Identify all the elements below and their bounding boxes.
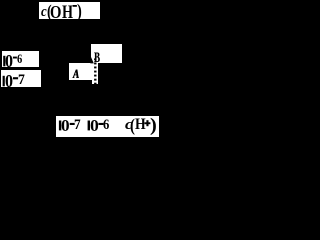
y tick 10^-6 glyph 0 (5, 53, 13, 71)
x tick 10^-7 glyph 7 (74, 118, 81, 133)
digit 1 of y tick 10^-7 (3, 76, 5, 87)
dotted guide line background strip (92, 63, 98, 83)
superscript minus of c(OH-) (73, 5, 77, 7)
y tick 10^-7 glyph 0 (5, 73, 13, 91)
y-axis label glyph O (50, 3, 61, 21)
x-axis label glyph ) (150, 117, 157, 136)
y tick label 10^-6 background box (2, 51, 40, 67)
y tick label 10^-7 background box (1, 70, 42, 87)
x tick 10^-7 glyph 0 (61, 118, 70, 134)
y-axis label glyph c (41, 5, 47, 20)
digit 1 of y tick 10^-6 (3, 56, 5, 67)
y-axis label glyph ( (47, 2, 52, 20)
point B letter (94, 51, 100, 66)
x-axis label glyph H (135, 117, 146, 133)
point A letter (73, 67, 79, 80)
x tick 10^-6 glyph 0 (90, 118, 99, 134)
curve segment clipping corner of point B box (90, 56, 93, 64)
superscript minus of x tick 10^-6 (98, 123, 103, 125)
superscript plus of c(H+) vertical stroke (146, 120, 148, 126)
digit 1 of x tick 10^-6 (88, 121, 90, 131)
point A label background box (69, 63, 93, 80)
superscript minus of x tick 10^-7 (70, 123, 75, 125)
x tick 10^-6 glyph 6 (103, 118, 109, 133)
superscript minus of y tick 10^-6 (13, 57, 17, 59)
x-axis label glyph c (125, 118, 133, 133)
x-axis label background box (56, 116, 158, 137)
x-axis label glyph ( (130, 117, 135, 135)
y-axis label background box (39, 2, 100, 19)
dotted guide line dots (94, 58, 96, 84)
y-axis label glyph ) (77, 2, 82, 20)
superscript plus of c(H+) horizontal stroke (144, 122, 150, 124)
y tick 10^-7 glyph 7 (18, 72, 25, 87)
y-axis label glyph H (62, 3, 73, 22)
y tick 10^-6 glyph 6 (17, 53, 22, 66)
point B label background box (91, 44, 123, 63)
superscript minus of y tick 10^-7 (13, 77, 18, 79)
digit 1 of x tick 10^-7 (59, 121, 61, 131)
